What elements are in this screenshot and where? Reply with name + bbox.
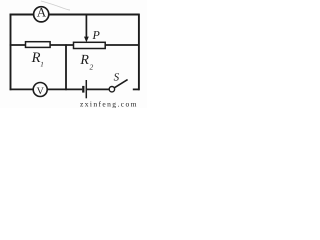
svg-text:V: V [37,86,45,97]
svg-text:R: R [79,53,89,68]
potentiometer wiper wire [85,14,87,39]
battery cell short plate [82,86,84,93]
svg-text:P: P [92,28,101,42]
voltmeter V [33,83,47,97]
svg-text:2: 2 [90,63,94,72]
wire bottom mid segment [87,88,110,90]
svg-text:S: S [114,71,120,83]
ammeter A [34,7,49,22]
potentiometer R2 [74,42,106,48]
wire middle horizontal [10,44,139,46]
wire top [10,14,140,16]
wiper arrowhead [84,37,89,43]
svg-text:A: A [37,5,47,20]
battery cell long plate [85,80,87,98]
scan artifact curve [41,1,70,10]
wire bottom right segment [133,88,140,90]
svg-text:zxinfeng.com: zxinfeng.com [80,100,138,109]
switch pivot [109,87,114,92]
wire right edge [138,14,140,91]
svg-text:1: 1 [40,61,44,69]
svg-text:R: R [31,50,41,66]
wire bottom left segment [10,88,83,90]
resistor R1 [26,42,51,48]
wire left edge [10,14,12,91]
wire junction vertical [65,44,67,90]
switch lever [114,80,127,88]
